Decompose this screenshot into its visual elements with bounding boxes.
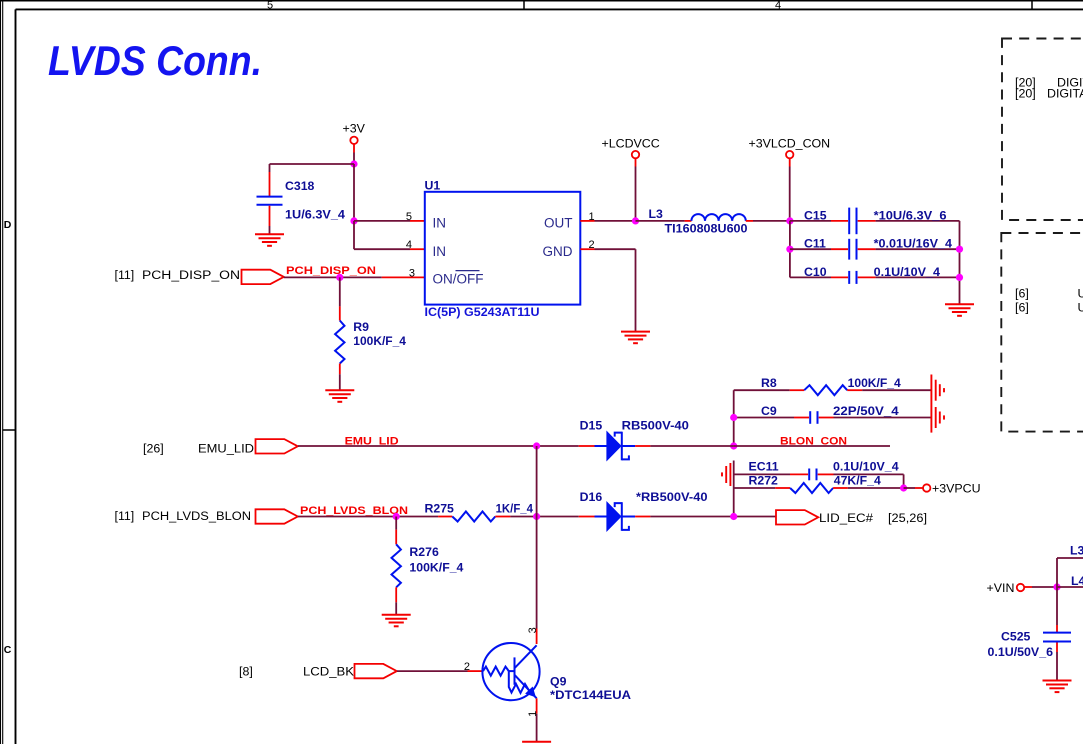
diode D15 (579, 432, 734, 461)
svg-text:+3V: +3V (343, 122, 366, 136)
wire +LCDVCC drop (635, 158, 637, 221)
svg-text:C318: C318 (285, 179, 315, 193)
wire OUT pin1 (580, 220, 635, 222)
svg-text:EC11: EC11 (749, 460, 779, 474)
port PCH_LVDS_BLON (115, 509, 298, 524)
svg-text:+3VLCD_CON: +3VLCD_CON (749, 137, 831, 151)
svg-text:C11: C11 (804, 237, 826, 251)
wire net PCH_DISP_ON (284, 276, 425, 278)
power symbol +3V (343, 122, 366, 144)
capacitor C318 (257, 164, 283, 234)
svg-text:*DTC144EUA: *DTC144EUA (550, 688, 631, 702)
node C11 left junction (786, 246, 793, 253)
svg-text:4: 4 (775, 0, 781, 11)
capacitor EC11 (734, 469, 904, 481)
ground (R9) (325, 390, 354, 402)
node +VIN junction (1053, 583, 1060, 590)
dashed box 1 (1002, 39, 1083, 221)
wire +3V rail down (353, 164, 355, 221)
svg-text:C: C (4, 644, 12, 656)
svg-text:U1: U1 (425, 179, 441, 193)
svg-text:2: 2 (464, 661, 470, 673)
svg-text:D16: D16 (580, 490, 603, 504)
capacitor C15 (790, 208, 960, 235)
power symbol +3VLCD_CON (749, 137, 831, 159)
wire Q9 collector rail (536, 446, 538, 644)
wire +3V to C318 (270, 163, 355, 165)
svg-text:100K/F_4: 100K/F_4 (409, 561, 463, 575)
resistor R8 (734, 385, 932, 395)
op-amp U1 body (425, 192, 581, 305)
resistor R9 (335, 277, 344, 390)
capacitor C9 (734, 411, 932, 424)
node D16 junction (533, 513, 540, 520)
svg-text:R272: R272 (749, 473, 779, 487)
box1 text [20] DIGIT row1 (1015, 76, 1083, 90)
wire Q9 emitter (536, 698, 538, 741)
inductor L3 (636, 214, 790, 221)
svg-text:[20]: [20] (1015, 87, 1036, 101)
svg-text:+VIN: +VIN (987, 581, 1015, 595)
node +3V junction (350, 160, 357, 167)
svg-text:LVDS Conn.: LVDS Conn. (48, 37, 262, 84)
svg-text:1K/F_4: 1K/F_4 (496, 502, 534, 516)
svg-text:TI160808U600: TI160808U600 (665, 221, 748, 235)
svg-text:GND: GND (543, 244, 573, 259)
svg-text:3: 3 (409, 267, 415, 279)
wire net EMU_LID (298, 445, 579, 447)
svg-text:C15: C15 (804, 208, 827, 222)
svg-text:PCH_DISP_ON: PCH_DISP_ON (142, 268, 240, 282)
svg-text:PCH_DISP_ON: PCH_DISP_ON (286, 265, 376, 277)
svg-text:Q9: Q9 (550, 675, 567, 689)
wire pin5 (354, 220, 425, 222)
svg-text:US: US (1078, 287, 1083, 301)
svg-text:5: 5 (267, 0, 273, 11)
resistor R275 (438, 512, 579, 522)
dashed box 2 (1001, 233, 1083, 432)
node PCH_DISP_ON junction (336, 274, 343, 281)
node C10 right junction (956, 274, 963, 281)
svg-text:LID_EC#: LID_EC# (819, 511, 873, 525)
svg-text:0.1U/50V_6: 0.1U/50V_6 (988, 645, 1054, 659)
svg-text:US: US (1078, 300, 1083, 314)
wire LCD_BK (397, 670, 483, 672)
svg-text:R275: R275 (425, 502, 455, 516)
svg-text:[11]: [11] (115, 268, 135, 282)
svg-text:4: 4 (406, 239, 412, 251)
svg-text:[6]: [6] (1015, 287, 1029, 301)
node BLON_CON junction (730, 442, 737, 449)
wire R8-C9 rail (733, 390, 735, 446)
svg-text:100K/F_4: 100K/F_4 (848, 376, 901, 390)
ground (U1 pin2) (621, 332, 650, 344)
svg-text:L4: L4 (1071, 574, 1083, 588)
port LCD_BK (239, 664, 397, 679)
node R276 junction (393, 513, 400, 520)
svg-text:[6]: [6] (1015, 300, 1029, 314)
svg-text:+LCDVCC: +LCDVCC (602, 137, 660, 151)
svg-text:D: D (4, 219, 12, 231)
wire +VIN (1024, 586, 1057, 588)
svg-text:[11]: [11] (115, 509, 135, 523)
svg-text:L3: L3 (1070, 544, 1083, 558)
svg-text:*0.01U/16V_4: *0.01U/16V_4 (874, 237, 953, 251)
ground (cap bank) (945, 304, 974, 316)
ground (C318) (255, 234, 284, 246)
svg-text:3: 3 (527, 627, 539, 633)
node LID_EC junction (730, 513, 737, 520)
node OUT junction (632, 217, 639, 224)
wire to L3 (1057, 558, 1083, 587)
wire +3VLCD_CON drop (789, 158, 791, 221)
capacitor C11 (790, 239, 960, 260)
svg-text:L3: L3 (649, 207, 664, 221)
svg-text:C525: C525 (1001, 629, 1031, 643)
capacitor C10 (790, 271, 960, 284)
wire net PCH_LVDS_BLON (298, 516, 438, 518)
power symbol +LCDVCC (602, 137, 660, 159)
power symbol +VIN (987, 581, 1025, 595)
svg-text:*RB500V-40: *RB500V-40 (636, 490, 708, 504)
node C9 junction (730, 414, 737, 421)
svg-text:22P/50V_4: 22P/50V_4 (833, 404, 899, 418)
wire +3V stub (353, 144, 355, 164)
ground sideways (EC11) (722, 463, 730, 486)
resistor R272 (734, 483, 904, 493)
svg-text:+3VPCU: +3VPCU (932, 482, 981, 496)
power symbol +3VPCU (923, 482, 981, 496)
svg-text:ON/OFF: ON/OFF (433, 271, 484, 286)
svg-text:D15: D15 (580, 418, 603, 432)
wire GND pin2 (580, 249, 635, 331)
node pin5 junction (350, 217, 357, 224)
wire cap rail right (959, 221, 961, 304)
wire BLON_CON (734, 445, 890, 447)
svg-text:PCH_LVDS_BLON: PCH_LVDS_BLON (300, 505, 408, 517)
svg-text:[26]: [26] (143, 442, 164, 456)
port EMU_LID (143, 439, 298, 456)
svg-text:47K/F_4: 47K/F_4 (834, 473, 881, 487)
svg-text:[25,26]: [25,26] (888, 511, 927, 525)
box2 text [6] U row2 (1015, 300, 1083, 314)
wire pin4 L (354, 221, 425, 249)
ground sideways (R8/C9) (931, 375, 944, 433)
wire EC11-R272 right (903, 474, 905, 488)
box1 text [20] DIGITA row2 (1015, 87, 1083, 101)
ground (C525) (1043, 681, 1072, 693)
wire EC11 rail (733, 461, 735, 517)
svg-text:R276: R276 (409, 545, 439, 559)
resistor R276 (392, 517, 401, 615)
port LID_EC# (776, 510, 927, 525)
node +3VPCU junction (900, 484, 907, 491)
svg-text:EMU_LID: EMU_LID (198, 442, 254, 456)
svg-text:PCH_LVDS_BLON: PCH_LVDS_BLON (142, 509, 251, 523)
svg-text:IC(5P) G5243AT11U: IC(5P) G5243AT11U (425, 305, 540, 319)
ground (R276) (382, 615, 411, 627)
node EMU_LID junction (533, 442, 540, 449)
node C11 right junction (956, 246, 963, 253)
svg-text:1: 1 (527, 711, 539, 717)
svg-text:RB500V-40: RB500V-40 (622, 418, 689, 432)
svg-text:0.1U/10V_4: 0.1U/10V_4 (833, 460, 899, 474)
box2 text [6] U row1 (1015, 287, 1083, 301)
U1 pin name ON/OFF (pin3) (433, 271, 484, 287)
node C15 row junction (786, 217, 793, 224)
capacitor C525 (1043, 587, 1071, 680)
port PCH_DISP_ON (115, 268, 284, 284)
svg-text:C9: C9 (761, 404, 777, 418)
wire to L4 (1057, 586, 1083, 588)
svg-text:100K/F_4: 100K/F_4 (353, 334, 406, 348)
transistor Q9 (482, 643, 539, 700)
svg-text:R9: R9 (353, 320, 369, 334)
svg-text:OUT: OUT (544, 216, 573, 231)
svg-text:DIGITAL: DIGITAL (1047, 87, 1083, 101)
diode D16 (579, 502, 776, 531)
svg-text:C10: C10 (804, 265, 827, 279)
svg-text:*10U/6.3V_6: *10U/6.3V_6 (874, 208, 947, 222)
svg-text:IN: IN (433, 216, 447, 231)
svg-text:0.1U/10V_4: 0.1U/10V_4 (874, 265, 941, 279)
svg-text:R8: R8 (761, 376, 777, 390)
wire to +3VPCU (904, 487, 923, 489)
svg-text:1U/6.3V_4: 1U/6.3V_4 (285, 207, 345, 221)
svg-text:[8]: [8] (239, 665, 253, 679)
wire cap rail left (789, 221, 791, 278)
svg-text:IN: IN (433, 244, 447, 259)
svg-text:5: 5 (406, 211, 412, 223)
svg-text:LCD_BK: LCD_BK (303, 665, 355, 679)
ground (Q9) (522, 742, 551, 744)
